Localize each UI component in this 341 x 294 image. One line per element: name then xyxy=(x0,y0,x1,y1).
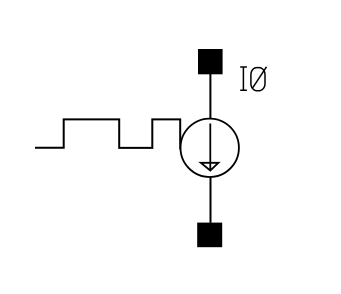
arrow shaft inside current source xyxy=(209,124,211,171)
wire from top terminal to current source xyxy=(209,74,211,119)
wire from current source to bottom terminal xyxy=(210,177,212,223)
pulse waveform wire (square wave source stimulus) xyxy=(35,119,180,149)
label I0 (slashed zero) xyxy=(240,67,266,91)
current source I0 (circle) xyxy=(181,119,239,177)
arrowhead (open triangle, pointing down) xyxy=(201,163,219,171)
pin terminal top (filled square) xyxy=(198,49,223,74)
pin terminal bottom (filled square) xyxy=(197,223,222,248)
